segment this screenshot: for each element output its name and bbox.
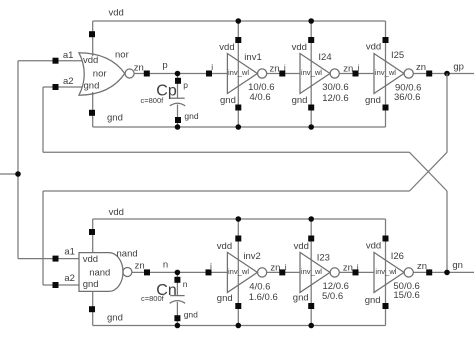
svg-text:vdd: vdd [109,8,124,19]
pin square nor zn [144,71,150,77]
svg-text:vdd: vdd [294,241,309,252]
svg-text:zn: zn [270,64,280,75]
wire vdd rail bottom [93,207,386,219]
wire inv1 supply column [237,21,239,127]
pin square inv2 vdd [235,236,241,242]
wire I24 to I25 [339,63,374,75]
junction dot vdd rail I24 [308,18,314,24]
svg-text:gnd: gnd [107,113,123,124]
pin square nand zn [144,269,150,275]
wire gnd rail bottom [93,313,386,326]
svg-text:gnd: gnd [83,279,99,290]
svg-text:inv_wl: inv_wl [228,267,249,276]
pin square I26 vdd [383,236,389,242]
svg-text:vdd: vdd [109,207,124,218]
svg-text:zn: zn [135,261,145,272]
wire inv1 to I24 [267,63,301,75]
pin square I23 gnd [308,303,314,309]
node a1 wire bottom [18,247,80,259]
pin square a2 bottom [53,282,59,288]
svg-text:nor: nor [115,50,129,61]
pin square a1 bottom [53,256,59,262]
inverter I23 [293,241,349,304]
inverter inv2 [217,241,278,304]
svg-text:vdd: vdd [83,55,98,66]
wire I26 out to gn and right edge [413,260,474,272]
svg-text:a1: a1 [64,247,75,258]
node a2 wire top [43,76,83,87]
pin square inv1 vdd [235,37,241,43]
junction dot gnd rail inv2 [236,323,242,329]
svg-text:vdd: vdd [292,42,307,53]
inverter I24 [292,42,349,106]
pin square I23 vdd [308,236,314,242]
svg-text:zn: zn [134,63,144,74]
svg-text:gnd: gnd [184,111,198,121]
svg-text:a2: a2 [63,76,74,87]
wire inv2 to I23 [267,262,301,274]
wire I24 supply column [310,21,312,127]
svg-text:I25: I25 [391,50,404,61]
svg-text:12/0.6: 12/0.6 [322,93,348,104]
svg-text:nand: nand [117,249,138,260]
pin square NAND vdd [89,229,95,235]
pin square I25 out [426,71,432,77]
svg-text:p: p [162,60,167,71]
pin square Cn gnd [174,315,180,321]
wire gp vertical drop [446,74,448,153]
wire I25 out to gp and right edge [413,62,474,74]
svg-text:I26: I26 [391,251,404,262]
svg-text:inv2: inv2 [243,251,260,262]
pin square I24 out / I25 in [353,71,359,77]
svg-text:15/0.6: 15/0.6 [393,290,419,301]
svg-text:vdd: vdd [219,42,234,53]
svg-text:zn: zn [416,62,426,73]
wire bottom signal row: nand out to inv2 [132,260,228,273]
junction dot gnd rail inv1 [236,124,242,130]
pin square Cp gnd [175,117,181,123]
svg-text:p: p [183,80,188,90]
wire inv2 supply column [237,219,239,326]
svg-text:n: n [163,260,168,271]
svg-text:nor: nor [93,69,107,80]
junction dot node p [175,71,181,77]
svg-text:zn: zn [343,64,353,75]
junction dot gnd rail Cp [175,124,181,130]
svg-text:I24: I24 [318,52,331,63]
pin square Cp p [175,78,181,84]
wire I25 supply column [385,21,387,127]
capacitor Cp [141,74,199,128]
wire feedback row 2 [43,190,410,192]
pin square inv1 in [206,71,212,77]
junction dot input [15,171,21,177]
svg-text:5/0.6: 5/0.6 [322,291,343,302]
svg-text:inv1: inv1 [244,52,261,63]
svg-text:vdd: vdd [83,254,98,265]
pin square I25 gnd [383,105,389,111]
junction dot gnd rail I24 [308,124,314,130]
inverter I25 [365,42,421,106]
node a1 wire top [18,50,83,61]
wire I23 to I26 [339,262,374,273]
wire gn vertical riser [446,191,448,272]
svg-text:gn: gn [452,260,463,271]
svg-text:nand: nand [89,268,110,279]
svg-text:gnd: gnd [184,310,198,320]
svg-text:c=800f: c=800f [141,96,165,105]
pin square I26 out [426,269,432,275]
pin square NAND gnd [89,306,95,312]
wire gn diagonal to row1 [410,152,448,191]
wire a2-top feedback vertical [42,87,44,152]
wire NAND gnd riser [92,291,94,325]
junction dot vdd rail I23 [308,216,314,222]
wire a2-bottom feedback vertical [42,191,44,285]
pin square inv2 gnd [235,303,241,309]
svg-text:vdd: vdd [366,42,381,53]
pin square I24 gnd [308,105,314,111]
pin square a2 top [53,84,59,90]
svg-text:gnd: gnd [84,81,100,92]
pin square NOR vdd [89,31,95,37]
svg-text:inv_wl: inv_wl [375,267,396,276]
svg-text:inv_wl: inv_wl [228,68,249,77]
inverter I26 [365,240,420,305]
svg-text:inv_wl: inv_wl [375,68,396,77]
svg-text:I23: I23 [317,253,330,264]
inverter inv1 [219,42,274,106]
node a2 wire bottom [43,273,80,285]
capacitor Cn [141,272,198,325]
wire gp diagonal to row2 [410,152,448,191]
pin square inv2 out / I23 in [279,269,285,275]
svg-text:36/0.6: 36/0.6 [394,92,420,103]
pin square I23 out / I26 in [353,269,359,275]
pin square inv2 in [206,269,212,275]
pin square NOR gnd [89,110,95,116]
wire I23 supply column [310,219,312,326]
wire NOR vdd drop [92,21,94,56]
svg-text:c=800f: c=800f [141,294,165,303]
svg-text:vdd: vdd [217,241,232,252]
pin square I26 gnd [383,303,389,309]
wire external input left [0,173,18,175]
wire input vertical a1 bus [17,61,19,259]
junction dot node gp [444,71,450,77]
pin square inv1 out / I24 in [279,71,285,77]
svg-text:4/0.6: 4/0.6 [250,92,271,103]
svg-text:30/0.6: 30/0.6 [322,82,348,93]
junction dot node n [175,270,181,276]
wire feedback row 1 [43,151,410,153]
junction dot vdd rail inv1 [236,18,242,24]
svg-text:gnd: gnd [292,95,308,106]
pin square a1 top [53,58,59,64]
svg-text:gp: gp [453,62,464,73]
wire gnd rail top [93,113,386,127]
svg-text:1.6/0.6: 1.6/0.6 [249,292,278,303]
wire NOR gnd riser [92,92,94,127]
svg-text:zn: zn [417,261,427,272]
svg-text:inv_wl: inv_wl [301,68,322,77]
wire top signal row: nor out to inv1 [134,60,228,73]
wire I26 supply column [385,219,387,326]
svg-text:gnd: gnd [107,313,123,324]
pin square I24 vdd [308,37,314,43]
svg-text:gnd: gnd [365,95,381,106]
wire vdd rail top [93,8,386,22]
svg-text:gnd: gnd [220,95,236,106]
pin square Cn n [174,277,180,283]
nor-gate U_nor [79,50,134,96]
svg-text:a1: a1 [63,50,74,61]
nand-gate U_nand [79,249,138,292]
svg-text:zn: zn [270,263,280,274]
svg-text:gnd: gnd [365,295,381,306]
wire NAND vdd drop [92,219,94,253]
svg-text:gnd: gnd [293,293,309,304]
svg-text:a2: a2 [64,273,75,284]
junction dot gnd rail I23 [308,323,314,329]
pin square I25 vdd [383,37,389,43]
svg-text:n: n [183,279,188,289]
svg-text:gnd: gnd [217,293,233,304]
junction dot node gn [444,270,450,276]
junction dot gnd rail Cn [175,323,181,329]
pin square inv1 gnd [235,105,241,111]
svg-text:inv_wl: inv_wl [301,267,322,276]
svg-text:zn: zn [343,262,353,273]
junction dot vdd rail inv2 [236,216,242,222]
svg-text:vdd: vdd [366,240,381,251]
